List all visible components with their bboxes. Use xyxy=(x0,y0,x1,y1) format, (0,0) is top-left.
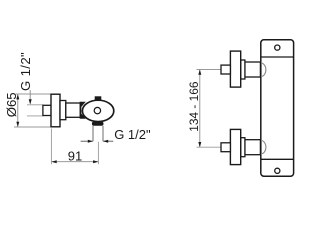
transition wedge (black, behind ellipse) xyxy=(81,102,86,119)
top valve flange xyxy=(230,51,240,87)
body collar xyxy=(60,101,66,120)
dimension line D65 xyxy=(16,94,19,127)
pipe dimension arrows G 1/2 xyxy=(81,140,114,143)
label G 1/2 vertical (rotated) xyxy=(18,52,33,91)
top valve neck xyxy=(245,62,261,77)
svg-text:Ø65: Ø65 xyxy=(4,92,19,117)
bottom valve extension line xyxy=(197,146,222,148)
svg-text:G 1/2": G 1/2" xyxy=(114,127,151,142)
extension line nut top xyxy=(27,104,44,106)
wall bar body xyxy=(261,40,294,176)
label 91 xyxy=(68,148,82,163)
svg-text:G 1/2": G 1/2" xyxy=(18,52,33,91)
body neck xyxy=(66,103,81,117)
bottom valve flange xyxy=(230,129,240,164)
handle center circle xyxy=(94,107,100,113)
extension line bottom (flange bottom, y=127) xyxy=(14,126,51,128)
screw hole top xyxy=(275,45,280,50)
body seam bottom xyxy=(261,158,294,160)
outlet pipe xyxy=(93,126,103,141)
dimension line 134-166 xyxy=(198,70,201,148)
svg-text:134 - 166: 134 - 166 xyxy=(187,81,201,132)
bottom valve cartridge arc xyxy=(261,141,266,154)
label 134-166 (rotated) xyxy=(187,81,201,132)
top valve extension line xyxy=(197,69,222,71)
extension line 91 right xyxy=(97,142,99,164)
wall flange xyxy=(51,94,60,127)
handle cap bump xyxy=(95,96,102,100)
handle ellipse xyxy=(82,100,113,121)
bottom valve nut xyxy=(221,143,230,152)
dimension line 91 xyxy=(52,160,99,163)
top valve nut xyxy=(221,65,230,74)
extension line top (flange top, y=94) xyxy=(16,93,52,95)
body seam top xyxy=(261,56,294,58)
bottom valve neck xyxy=(245,140,261,155)
screw hole bottom xyxy=(275,168,280,173)
label D65 (rotated) xyxy=(4,92,19,117)
top valve collar xyxy=(241,60,245,79)
inlet nut xyxy=(43,105,51,115)
bottom valve collar xyxy=(241,138,245,157)
label G 1/2 (pipe) xyxy=(114,127,151,142)
leader line G 1/2 (top) xyxy=(29,90,32,105)
outlet collar xyxy=(92,122,104,126)
extension line 91 left xyxy=(50,129,52,165)
svg-text:91: 91 xyxy=(68,148,82,163)
extension line nut bottom xyxy=(27,115,44,117)
top valve cartridge arc xyxy=(261,63,266,76)
